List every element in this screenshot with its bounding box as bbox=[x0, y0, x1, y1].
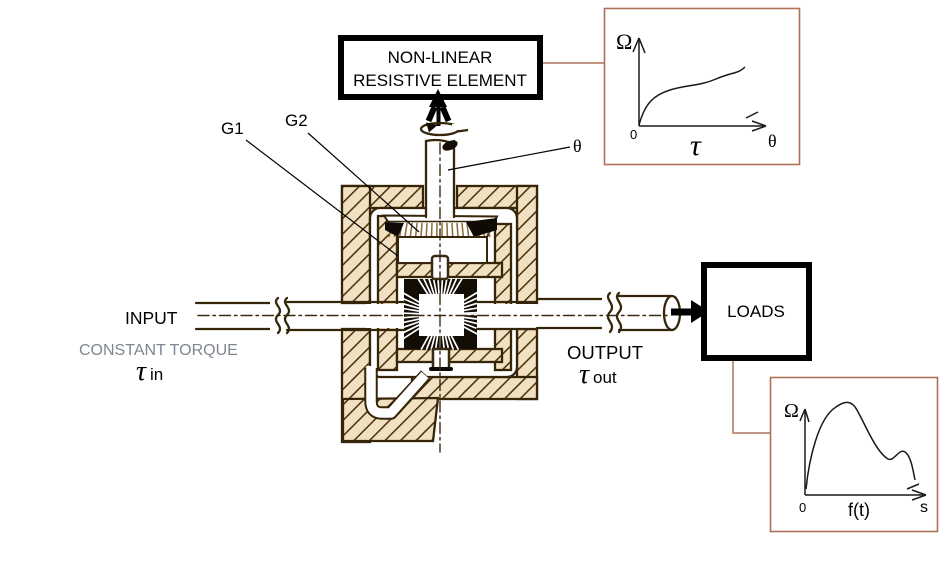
casing left wall lower bbox=[342, 329, 370, 442]
svg-text:θ: θ bbox=[573, 136, 582, 156]
white channel bottom-left bbox=[371, 368, 426, 413]
diff case top band left bbox=[397, 263, 433, 277]
gear G2 left black wedge bbox=[385, 222, 404, 237]
svg-text:INPUT: INPUT bbox=[125, 308, 178, 328]
gear G2 rim bbox=[384, 216, 497, 238]
svg-text:in: in bbox=[150, 365, 163, 384]
svg-text:0: 0 bbox=[630, 127, 637, 142]
bottom graph box frame bbox=[771, 378, 938, 532]
casing right wall lower bbox=[517, 329, 537, 399]
output shaft break bbox=[602, 293, 621, 334]
LOADS box bbox=[704, 265, 809, 358]
output shaft end ellipse bbox=[664, 296, 680, 330]
casing bottom-left block bbox=[343, 398, 438, 441]
svg-text:out: out bbox=[593, 368, 617, 387]
svg-text:τ: τ bbox=[579, 359, 590, 390]
wire connector from NON-LINEAR box to top graph bbox=[543, 62, 605, 64]
bottom graph axes bbox=[800, 409, 926, 500]
output shaft second segment bbox=[619, 296, 672, 330]
svg-text:τ: τ bbox=[136, 356, 147, 387]
cage left wall bbox=[378, 216, 397, 370]
vertical centerline bbox=[439, 143, 441, 452]
casing top-right band bbox=[457, 186, 537, 208]
bottom pin black cap bbox=[431, 367, 451, 371]
central differential black gears bbox=[404, 279, 477, 349]
wire connector from LOADS box to bottom graph bbox=[733, 360, 770, 433]
bottom pin bbox=[433, 349, 449, 369]
svg-text:G1: G1 bbox=[221, 119, 244, 138]
svg-text:G2: G2 bbox=[285, 111, 308, 130]
top pin bbox=[432, 256, 448, 279]
svg-text:NON-LINEAR: NON-LINEAR bbox=[388, 48, 493, 67]
input shaft right segment bbox=[366, 304, 404, 328]
svg-text:θ: θ bbox=[768, 131, 777, 151]
casing right wall upper bbox=[517, 186, 537, 303]
input shaft left segment bbox=[196, 303, 271, 329]
diff case top band right bbox=[446, 263, 502, 277]
gearbox drawing group bbox=[196, 138, 680, 452]
rotation ellipse bbox=[421, 123, 468, 136]
svg-text:LOADS: LOADS bbox=[727, 302, 785, 321]
top graph curve bbox=[639, 67, 745, 125]
top graph box frame bbox=[605, 9, 800, 165]
casing left wall upper bbox=[342, 186, 370, 303]
leader G2 bbox=[308, 133, 419, 232]
NON-LINEAR RESISTIVE ELEMENT box bbox=[341, 38, 540, 97]
horizontal centerline bbox=[198, 315, 668, 317]
svg-text:s: s bbox=[920, 499, 928, 516]
trident arrow below box bbox=[429, 89, 449, 126]
svg-text:0: 0 bbox=[799, 500, 806, 515]
svg-text:RESISTIVE ELEMENT: RESISTIVE ELEMENT bbox=[353, 71, 527, 90]
cage right wall bbox=[495, 224, 511, 370]
shaft through casing right bbox=[477, 302, 537, 329]
casing top-left band bbox=[342, 186, 423, 208]
inner cavity bbox=[370, 208, 517, 377]
black arrow into LOADS bbox=[671, 300, 709, 323]
input shaft break bbox=[270, 298, 289, 333]
svg-text:f(t): f(t) bbox=[848, 500, 870, 520]
top graph axes bbox=[633, 38, 766, 131]
output shaft first segment bbox=[537, 299, 603, 328]
bottom graph curve bbox=[806, 402, 915, 489]
svg-text:τ: τ bbox=[690, 129, 702, 162]
svg-text:Ω: Ω bbox=[784, 400, 799, 422]
leader theta bbox=[448, 147, 570, 170]
gear G2 teeth fan bbox=[389, 224, 490, 237]
svg-text:Ω: Ω bbox=[616, 29, 632, 54]
svg-text:CONSTANT TORQUE: CONSTANT TORQUE bbox=[79, 342, 238, 359]
gear G2 hub block bbox=[398, 237, 487, 263]
central radial white lines bbox=[404, 279, 477, 349]
diff case bottom band left bbox=[397, 349, 433, 362]
leader G1 bbox=[246, 140, 398, 256]
central white square bbox=[419, 294, 464, 336]
gear G2 right black wedge bbox=[466, 218, 497, 237]
diff case bottom band right bbox=[446, 349, 502, 362]
top shaft bbox=[426, 138, 459, 217]
casing bottom band right bbox=[412, 377, 537, 399]
